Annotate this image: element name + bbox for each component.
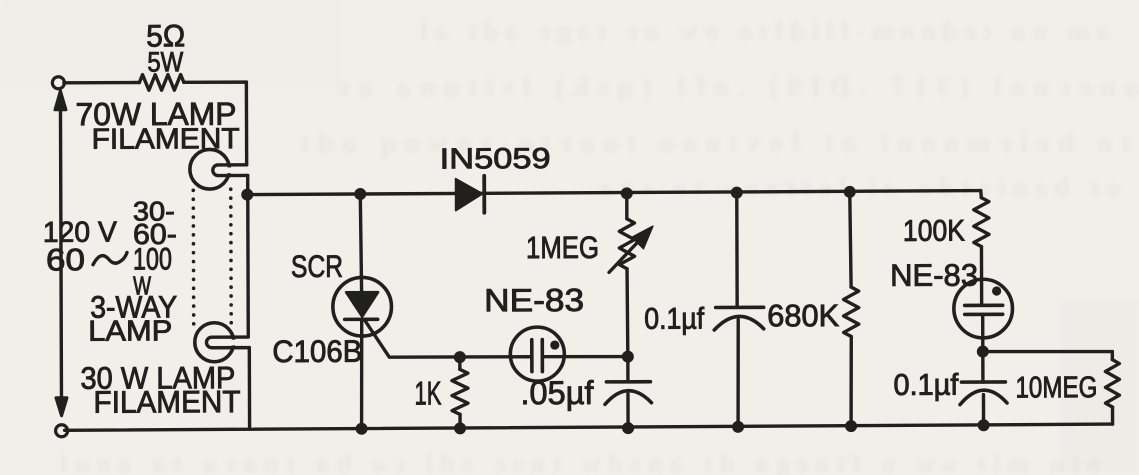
svg-text:anecnol (317 .DI9) .ofI (: anecnol (317 .DI9) .ofI (qsk) lsituoa as [339, 72, 1139, 103]
wire 0.1uf right bottom lead [982, 395, 986, 426]
SCR triangle [346, 292, 378, 317]
wire 1K bottom lead [458, 414, 461, 428]
svg-text:.05µf: .05µf [520, 374, 594, 411]
wire 0.1uf mid top lead [735, 193, 739, 308]
svg-text:IN5059: IN5059 [440, 143, 551, 175]
terminal bottom-left [56, 425, 68, 437]
svg-text:SCR: SCR [291, 249, 343, 284]
svg-text:FILAMENT: FILAMENT [92, 123, 240, 156]
neon NE-83 right circle [954, 279, 1013, 338]
neon NE-83 right electrode A [965, 303, 1003, 307]
wire 0.1uf mid bottom lead [736, 319, 740, 426]
svg-text:0.1µf: 0.1µf [644, 303, 705, 336]
wire 1MEG top lead [625, 193, 628, 218]
resistor 100K [974, 198, 989, 247]
svg-text:60: 60 [46, 242, 85, 277]
SCR circle [333, 277, 392, 336]
SCR cathode bar [345, 317, 378, 321]
svg-text:10MEG: 10MEG [1015, 371, 1097, 404]
node 1K top [454, 351, 466, 363]
node 680K top [844, 186, 856, 198]
wire lamp1 to lamp2 [246, 175, 250, 336]
svg-text:LAMP: LAMP [88, 315, 172, 347]
lamp 70W filament circle [190, 149, 230, 189]
node SCR top [354, 188, 366, 200]
capacitor 0.1uf mid curved plate [714, 316, 764, 330]
node neon-cap junction [977, 346, 989, 358]
wire 100K to neon [980, 247, 984, 305]
wire SCR anode [360, 194, 361, 292]
svg-text:100K: 100K [903, 215, 965, 248]
arrow up (source top) [55, 91, 66, 110]
svg-text:5W: 5W [147, 46, 184, 77]
lamp 70W slot mask [213, 167, 246, 173]
bulb envelope dotted left [191, 190, 195, 324]
wire 100K top lead [979, 191, 983, 198]
resistor 5ohm 5W [139, 75, 184, 91]
neon NE-83 left electrode B [540, 340, 544, 372]
neon NE-83 left electrode A [530, 340, 534, 372]
svg-text:NE-83: NE-83 [890, 258, 978, 293]
wire 1K top lead [458, 357, 461, 369]
wire 680K bottom lead [849, 337, 853, 427]
neon NE-83 right dot [992, 286, 1001, 295]
node 0.1uf right bottom [978, 419, 990, 431]
wire gate rail left [459, 355, 529, 359]
node gate-pot junction [622, 351, 634, 363]
svg-text:0.1µf: 0.1µf [893, 369, 959, 402]
wire neon right bottom lead [981, 314, 985, 351]
potentiometer 1MEG [619, 219, 634, 269]
diode IN5059 cathode bar [482, 176, 486, 213]
diode IN5059 triangle [456, 179, 483, 211]
node main-rail tap [241, 189, 253, 201]
node 1MEG top [621, 187, 633, 199]
wire lamp2 to bottom rail [248, 348, 252, 429]
capacitor 0.1uf mid top plate [716, 306, 764, 310]
node 0.1uf mid top [731, 187, 743, 199]
node 0.1uf mid bottom [732, 421, 744, 433]
wire SCR cathode [360, 319, 364, 428]
resistor 1K [452, 369, 468, 414]
lamp 30W filament hook [206, 337, 249, 348]
svg-text:680K: 680K [767, 298, 839, 333]
terminal top-left [52, 77, 64, 89]
lamp 70W filament hook [213, 165, 248, 176]
wire resistor to corner [184, 80, 246, 84]
arrow down (source bottom) [56, 398, 67, 416]
pot 1MEG arrow [609, 239, 641, 273]
capacitor .05uf curved plate [605, 391, 652, 405]
capacitor .05uf top plate [606, 380, 650, 384]
svg-text:C106B: C106B [272, 334, 362, 369]
wire bottom rail [65, 424, 1113, 430]
node 1K bottom [454, 422, 466, 434]
lamp 30W filament circle [195, 323, 234, 362]
capacitor 0.1uf right curved plate [960, 390, 1007, 405]
resistor 680K [843, 287, 858, 337]
wire corner down to lamp1 [245, 82, 249, 164]
wire 680K top lead [850, 192, 851, 287]
bulb envelope dotted right [229, 189, 233, 325]
node SCR bottom [356, 423, 368, 435]
resistor 10MEG [1105, 360, 1119, 408]
wire top rail [247, 191, 981, 195]
svg-text:1K: 1K [414, 374, 441, 411]
wire 10MEG bottom lead [1111, 407, 1114, 424]
wire 0.1uf right top lead [981, 352, 985, 382]
capacitor 0.1uf right top plate [961, 380, 1005, 384]
svg-text:1MEG: 1MEG [526, 230, 599, 265]
neon NE-83 right electrode B [965, 312, 1003, 316]
wire 120V line [60, 108, 61, 401]
wire .05uf bottom lead [626, 394, 630, 428]
node .05uf bottom [622, 422, 634, 434]
svg-text:ot beniatdo ai lottooo to sga: ot beniatdo ai lottooo to sga [600, 173, 1120, 202]
wire top-left [64, 81, 139, 85]
wire node to 10MEG [983, 349, 1113, 353]
wire .05uf top lead [626, 357, 629, 382]
svg-text:NE-83: NE-83 [484, 282, 584, 318]
lamp 30W slot mask [217, 340, 247, 346]
wire 10MEG corner [1111, 352, 1114, 360]
SCR gate lead [365, 320, 460, 357]
neon NE-83 left circle [510, 327, 564, 381]
svg-text:FILAMENT: FILAMENT [93, 384, 240, 420]
wire 1MEG bottom lead [625, 269, 629, 357]
sine symbol ~ [93, 253, 127, 265]
node 680K bottom [845, 420, 857, 432]
wire gate rail right [544, 355, 628, 359]
neon NE-83 left dot [550, 340, 559, 349]
